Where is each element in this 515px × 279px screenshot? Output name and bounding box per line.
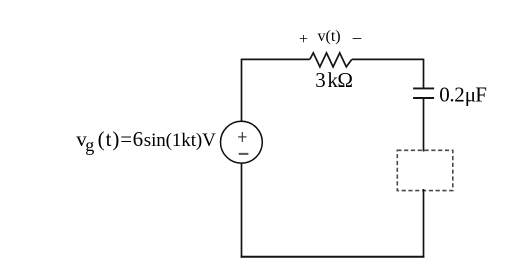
bottom wire (241, 256, 425, 258)
svg-text:3kΩ: 3kΩ (315, 68, 352, 92)
dashed box (unknown element) (397, 150, 453, 190)
wire dashed box to bottom-right corner (423, 189, 425, 258)
svg-text:vg(t)=6sin(1kt)V: vg(t)=6sin(1kt)V (76, 127, 216, 155)
wire capacitor to dashed box (423, 98, 425, 152)
svg-text:0.2μF: 0.2μF (439, 82, 486, 106)
wire left vertical: bottom corner to source (241, 164, 243, 258)
voltage source circle Vg (221, 121, 263, 163)
capacitor C 0.2uF top plate (413, 87, 434, 89)
wire top-left to resistor (242, 58, 310, 60)
wire left vertical: source to top-left corner (241, 59, 243, 121)
plus sign inside source (238, 136, 246, 138)
resistor R 3kOhm zigzag (310, 53, 352, 67)
minus sign inside source (239, 153, 249, 155)
capacitor C 0.2uF bottom plate (413, 97, 434, 99)
svg-text:+: + (299, 31, 308, 48)
wire right vertical: corner to capacitor (423, 59, 425, 89)
svg-text:–: – (352, 27, 362, 46)
svg-text:v(t): v(t) (318, 28, 341, 45)
wire resistor to top-right corner (352, 58, 424, 60)
